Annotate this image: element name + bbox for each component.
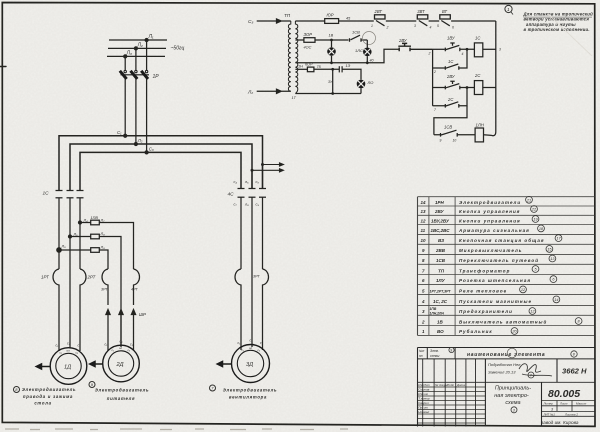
wire jog to bottom branch bbox=[434, 106, 467, 135]
limit switch 3VT bbox=[417, 15, 439, 26]
header band grid bbox=[418, 348, 595, 427]
node tap a bbox=[79, 221, 82, 224]
supply line L1 bbox=[109, 39, 167, 41]
row4 wire bbox=[295, 68, 307, 70]
node L1 bbox=[145, 39, 148, 42]
table balloons bbox=[511, 196, 582, 334]
thermal overload 6RT bbox=[263, 269, 269, 350]
switch 1R bbox=[120, 70, 149, 79]
row1 wire bbox=[295, 20, 324, 22]
pushbutton contact 1VU bbox=[445, 43, 474, 51]
wire row2 b bbox=[315, 39, 349, 41]
wire row1 b bbox=[339, 20, 374, 22]
wire row4 b bbox=[314, 68, 339, 70]
motor terminal scribbles bbox=[60, 346, 261, 355]
node tap 3U top bbox=[331, 68, 334, 71]
wire drop pole2 bbox=[135, 48, 137, 70]
drawing title bbox=[494, 385, 531, 406]
node bus2 bbox=[134, 143, 137, 146]
node row3 b bbox=[366, 61, 369, 64]
bottom return wire bbox=[295, 93, 361, 95]
motor M1 terminals bbox=[56, 342, 82, 348]
wire pole2 to bus2 bbox=[135, 79, 137, 144]
coil 2S bbox=[474, 81, 482, 95]
node tap b bbox=[69, 235, 72, 238]
wire row4 c bbox=[342, 69, 361, 79]
supply line L2 bbox=[108, 47, 166, 49]
capacitor bbox=[339, 66, 342, 72]
lamp V bbox=[327, 47, 336, 56]
holding contact 2S bbox=[433, 88, 467, 108]
caption motor2 bbox=[95, 388, 149, 402]
thermal overload 1RT bbox=[53, 269, 59, 351]
fuse 3PV bbox=[91, 248, 100, 253]
motor M1 shaft arrow bbox=[36, 364, 50, 369]
wire motor1 phase a bbox=[58, 198, 60, 269]
motor M3 3D bbox=[232, 345, 270, 383]
motor M3 terminals bbox=[238, 339, 264, 346]
lamp LO bbox=[357, 80, 366, 89]
signature cell text bbox=[488, 362, 521, 375]
fuse 1PV bbox=[91, 220, 100, 225]
holding contact 1S bbox=[433, 49, 467, 70]
node tap 3U bottom bbox=[331, 92, 334, 95]
lamp 1LS bbox=[363, 48, 372, 57]
wire coil 1S to bus bbox=[483, 48, 496, 50]
table rows text bbox=[421, 200, 548, 334]
wire to control tap upper bbox=[263, 163, 284, 166]
wire coil 1LN to bus bbox=[484, 134, 492, 137]
motor M2 shaft arrow bbox=[90, 361, 103, 366]
thermal overload 4RT bbox=[134, 269, 140, 305]
node row3 a bbox=[330, 61, 333, 64]
signature balloon bbox=[528, 372, 534, 378]
wire lamp 1LS to row3 bbox=[366, 56, 368, 63]
input C3 bbox=[248, 19, 291, 25]
stamp circle faint bbox=[363, 32, 376, 45]
node tap upper bbox=[261, 163, 264, 166]
row2 wire bbox=[295, 39, 304, 41]
motor M3 shaft arrow bbox=[217, 361, 231, 366]
branch 1VU wire bbox=[433, 48, 445, 50]
fuse 3OR bbox=[304, 38, 315, 43]
bus 3 bbox=[80, 152, 241, 190]
row3 return wire bbox=[295, 49, 398, 63]
fuse 10R bbox=[325, 19, 339, 24]
contactor contact 4S bbox=[238, 188, 245, 190]
node bus1 bbox=[124, 134, 127, 137]
caption motor1 bbox=[22, 387, 76, 406]
contact 1VL bbox=[350, 35, 368, 42]
wire lamp 1LS drop bbox=[366, 40, 368, 48]
fuse 6OR bbox=[307, 67, 314, 72]
motor M2 terminals bbox=[105, 340, 134, 347]
signature flourish bbox=[519, 364, 552, 376]
node lamp V bbox=[330, 39, 333, 42]
wire motor1 phase c bbox=[79, 198, 81, 269]
wire bus2 cont bbox=[251, 170, 253, 188]
paper smudge diagonal bbox=[548, 14, 592, 56]
wire to control tap lower bbox=[252, 169, 283, 172]
balloon 9 bbox=[89, 382, 95, 388]
transformer TP primary bbox=[288, 21, 290, 91]
wire lamp V bottom bbox=[331, 56, 333, 63]
note circled 1 bbox=[505, 5, 513, 14]
connector ShR arrows bbox=[106, 310, 136, 351]
fuse 2PV bbox=[91, 234, 100, 239]
title block band A grid bbox=[418, 359, 595, 427]
note text bbox=[523, 12, 594, 32]
contactor contact 1S (three poles) bbox=[56, 191, 84, 198]
wire tap a bbox=[80, 223, 134, 270]
band B tiny texts bbox=[418, 383, 465, 414]
bus 2 bbox=[70, 144, 252, 191]
thermal overload 2RT bbox=[80, 269, 86, 351]
right bus bbox=[492, 21, 496, 136]
wire drop pole3 bbox=[146, 40, 148, 71]
limit switch 2VT bbox=[375, 15, 417, 26]
input L2 bbox=[247, 89, 291, 95]
balloon 8 bbox=[14, 387, 20, 393]
caption motor3 bbox=[223, 388, 277, 400]
title balloon 3 bbox=[511, 407, 517, 413]
wire pole1 to bus1 bbox=[124, 79, 126, 136]
wire lamp V drop bbox=[331, 40, 333, 47]
title block band B rows bbox=[418, 387, 486, 423]
node tap c bbox=[57, 248, 61, 252]
node bus3 bbox=[145, 151, 148, 154]
coil 1S bbox=[474, 43, 482, 57]
header stamp circle bbox=[507, 348, 517, 358]
wire lamp LO bottom bbox=[360, 88, 362, 93]
limit switch VT bbox=[440, 15, 496, 26]
tap wire 3U bbox=[332, 69, 334, 93]
wire motor3 phase a bbox=[240, 197, 242, 269]
node L3 bbox=[124, 55, 127, 58]
node tap lower bbox=[251, 169, 254, 172]
node 2VU-coil bbox=[466, 86, 469, 89]
motor M2 2D bbox=[103, 345, 140, 382]
motor M1 1D bbox=[50, 348, 87, 385]
pushbutton 2VU bbox=[398, 43, 432, 51]
paper smudge blobs bbox=[5, 428, 348, 431]
pushbutton contact 2VU branch bbox=[433, 81, 475, 89]
wire pole3 to bus3 bbox=[146, 79, 148, 153]
right sub grid text bbox=[543, 402, 587, 417]
node L2 bbox=[134, 47, 137, 50]
wire motor1 phase b bbox=[69, 198, 71, 348]
node 1VU-coil bbox=[466, 48, 469, 51]
balloon 8 header bbox=[571, 351, 577, 357]
balloon 7 bbox=[210, 385, 216, 391]
thermal overload 5RT bbox=[235, 269, 241, 350]
transformer TP secondary bbox=[295, 21, 297, 94]
header band text bbox=[419, 349, 440, 358]
contact 1SV bbox=[434, 130, 475, 136]
supply line L3 bbox=[107, 55, 165, 57]
thermal overload 3RT bbox=[102, 269, 108, 305]
wire motor3 phase c bbox=[262, 165, 264, 270]
bus 1 bbox=[59, 136, 263, 191]
left branch bus bbox=[432, 49, 434, 106]
right sub grid bbox=[542, 401, 595, 417]
coil 1LN bbox=[475, 128, 483, 142]
wire tap b bbox=[70, 237, 121, 348]
wire motor3 phase b bbox=[251, 197, 253, 347]
balloon 9 header bbox=[449, 347, 454, 352]
component table grid bbox=[418, 197, 595, 336]
wire coil 2S to bus bbox=[483, 87, 496, 89]
wire drop pole1 bbox=[124, 56, 126, 70]
wire tap c bbox=[59, 250, 108, 269]
